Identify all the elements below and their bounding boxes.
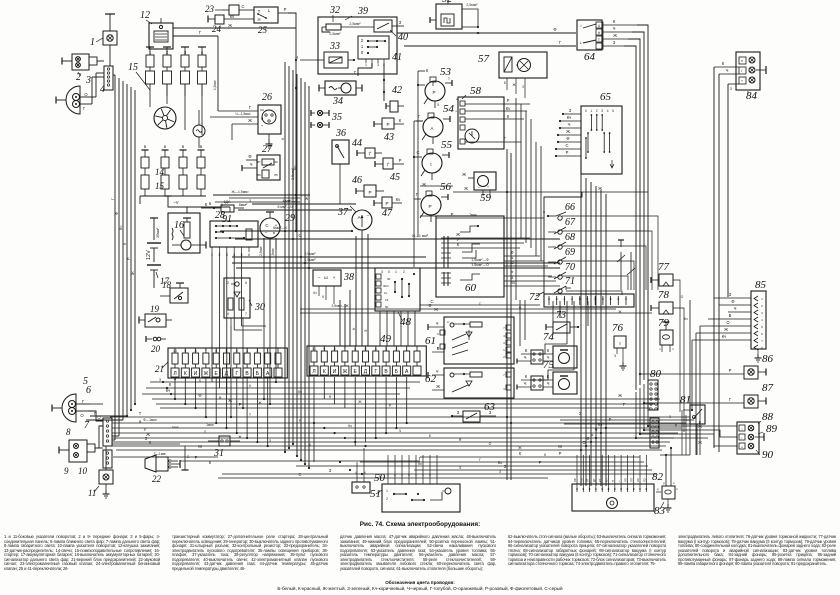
washer motor 59: [462, 172, 496, 204]
svg-text:24: 24: [212, 24, 222, 34]
svg-text:29: 29: [285, 213, 295, 224]
horn 22: [145, 455, 180, 484]
connector strip 80 lower: [650, 418, 659, 448]
headlamp 3: [56, 75, 105, 114]
svg-text:78: 78: [658, 289, 670, 301]
svg-text:1: 1: [365, 63, 367, 67]
fog lamp 86: [639, 353, 774, 379]
svg-text:7: 7: [205, 349, 207, 353]
turn relay 82: [572, 471, 664, 511]
gas valve 23: [205, 4, 246, 15]
svg-text:–: –: [318, 275, 321, 280]
svg-text:0: 0: [361, 50, 364, 55]
svg-text:≡: ≡: [619, 341, 622, 346]
svg-text:Т: Т: [249, 413, 251, 417]
svg-text:Г: Г: [504, 136, 507, 141]
svg-text:К: К: [169, 382, 172, 387]
wires into 85: [692, 290, 751, 455]
long horizontals lower band: [218, 451, 656, 478]
svg-text:20: 20: [151, 344, 161, 354]
svg-text:Д: Д: [364, 369, 368, 375]
gauge 55: [415, 139, 453, 180]
svg-text:L: L: [580, 41, 582, 45]
svg-text:1мм²: 1мм²: [206, 423, 215, 427]
svg-text:Ф: Ф: [553, 27, 556, 32]
svg-text:26: 26: [262, 92, 272, 103]
svg-text:Р: Р: [428, 204, 431, 209]
left lower wires K R: [112, 444, 420, 465]
svg-text:Ж: Ж: [358, 400, 362, 404]
svg-text:39: 39: [357, 6, 368, 17]
svg-text:КТ: КТ: [598, 478, 602, 482]
wires from 29 down: [264, 238, 276, 404]
transistor switch 26: [210, 92, 281, 148]
svg-text:Ч: Ч: [547, 381, 550, 386]
svg-text:Р: Р: [539, 460, 542, 465]
generator 29: [259, 212, 295, 262]
brake light switch 63: [451, 401, 496, 422]
svg-text:1: 1: [90, 37, 95, 48]
legend text column 5: [678, 535, 836, 567]
svg-text:86: 86: [762, 353, 774, 365]
svg-text:t: t: [430, 162, 432, 167]
svg-text:п: п: [741, 59, 743, 63]
svg-text:1,5мм²: 1,5мм²: [213, 80, 217, 90]
svg-text:Г: Г: [82, 399, 85, 404]
svg-text:71: 71: [565, 276, 575, 287]
svg-text:Ф: Ф: [114, 212, 119, 215]
svg-text:18: 18: [162, 280, 172, 290]
svg-text:22: 22: [152, 474, 162, 484]
svg-text:ПЗ: ПЗ: [642, 478, 646, 482]
extra wire letters texture: [139, 302, 623, 478]
long horizontals mid-page: [110, 411, 690, 450]
svg-text:7: 7: [761, 339, 763, 343]
svg-text:31: 31: [213, 448, 224, 459]
svg-text:С: С: [241, 4, 244, 9]
svg-text:6мм²—К: 6мм²—К: [273, 226, 288, 230]
svg-text:3: 3: [377, 63, 379, 67]
ignition coil 12: [140, 10, 296, 111]
svg-text:Ж: Ж: [698, 440, 702, 445]
svg-text:6: 6: [86, 385, 91, 396]
ignition switch 48: [375, 268, 420, 328]
switch block 25: [240, 7, 296, 208]
svg-text:Ж: Ж: [613, 33, 617, 38]
fuel sensor 79: [658, 317, 674, 352]
svg-text:30/1: 30/1: [383, 284, 389, 288]
vacuum sensor 77: [651, 261, 684, 412]
svg-text:21: 21: [155, 364, 164, 374]
connector 80: [648, 368, 662, 410]
svg-text:6: 6: [245, 281, 247, 285]
svg-text:Р: Р: [368, 190, 371, 195]
svg-text:+: +: [487, 184, 490, 189]
svg-text:69: 69: [565, 247, 575, 258]
svg-text:Г: Г: [479, 458, 481, 462]
svg-text:О: О: [80, 413, 84, 418]
svg-text:З: З: [613, 40, 616, 45]
svg-text:70: 70: [565, 262, 575, 273]
svg-text:10: 10: [173, 349, 177, 353]
svg-text:Ж—1,5мм²: Ж—1,5мм²: [231, 190, 249, 194]
fuel selector switch 64: [577, 20, 603, 63]
svg-text:58: 58: [470, 85, 482, 97]
svg-text:Кч: Кч: [684, 317, 688, 321]
wires to 84 and down: [714, 61, 739, 452]
wire lower plugs to bus: [140, 196, 206, 204]
svg-text:З: З: [459, 466, 461, 470]
svg-text:7: 7: [84, 420, 90, 431]
svg-text:+: +: [617, 480, 621, 482]
wires 64 outputs right then down: [603, 19, 648, 390]
gauge 54: [416, 103, 455, 144]
svg-text:С: С: [298, 233, 301, 238]
svg-text:Ж: Ж: [436, 384, 440, 389]
svg-text:Ж: Ж: [464, 186, 468, 191]
pressure sensor 46: [352, 175, 384, 197]
trailer socket 85: [751, 279, 767, 362]
portable lamp socket 50: [352, 471, 386, 493]
svg-text:2: 2: [403, 270, 405, 274]
svg-text:Ч: Ч: [614, 354, 616, 358]
battery 17: [146, 218, 170, 288]
wiper switch 65: [581, 91, 622, 174]
svg-text:2: 2: [761, 304, 763, 308]
wires lamps 5-11 to connector: [88, 404, 106, 462]
wires from 30 down: [231, 326, 243, 417]
svg-text:Ф: Ф: [428, 303, 431, 308]
wire bundle 48 down to 49: [380, 311, 415, 346]
svg-text:т: т: [741, 79, 743, 83]
horizontal feeders 2.5 1.5: [232, 252, 560, 268]
svg-text:ДТ: ДТ: [592, 478, 596, 482]
svg-text:76: 76: [612, 322, 624, 334]
svg-text:6: 6: [761, 332, 763, 336]
svg-text:Г: Г: [416, 192, 419, 197]
svg-text:4: 4: [236, 349, 238, 353]
svg-text:Т: Т: [139, 411, 142, 416]
indicator 70: [548, 262, 575, 279]
brake fluid sensor 76: [612, 322, 627, 370]
svg-text:Ж: Ж: [724, 327, 728, 332]
svg-text:Е: Е: [354, 369, 358, 375]
svg-text:Ф—1мм²: Ф—1мм²: [143, 418, 158, 422]
svg-text:Р: Р: [389, 404, 392, 408]
svg-text:Ж: Ж: [304, 196, 309, 200]
svg-text:З: З: [329, 468, 332, 473]
svg-text:15: 15: [155, 181, 165, 191]
svg-text:Ч: Ч: [436, 321, 439, 326]
svg-text:С: С: [298, 472, 301, 477]
vertical feeders left of gauges: [414, 71, 425, 267]
wire colour legend list: [0, 586, 840, 591]
svg-text:1: 1: [361, 44, 364, 49]
svg-text:86: 86: [257, 173, 261, 177]
svg-text:56: 56: [440, 181, 452, 193]
svg-text:З: З: [437, 103, 439, 107]
gauge 56: [414, 181, 452, 222]
svg-text:Кч: Кч: [313, 291, 317, 295]
svg-text:50: 50: [385, 305, 389, 309]
wiper relay 62: [425, 368, 514, 398]
svg-text:2,5мм²—Ж: 2,5мм²—Ж: [331, 304, 349, 308]
svg-text:Ж: Ж: [204, 371, 209, 377]
svg-text:3: 3: [503, 341, 505, 345]
wires bundle 690-700 down: [660, 74, 690, 455]
svg-text:2: 2: [256, 349, 258, 353]
svg-text:12V: 12V: [146, 250, 152, 260]
svg-text:2: 2: [386, 497, 388, 501]
wire starter top: [165, 196, 249, 213]
svg-text:4: 4: [503, 334, 505, 338]
svg-text:Ж: Ж: [558, 444, 562, 449]
svg-text:Г: Г: [199, 30, 202, 35]
switch 19: [139, 304, 172, 327]
svg-text:Ж: Ж: [618, 393, 622, 398]
svg-text:З: З: [457, 410, 460, 415]
svg-text:85: 85: [755, 279, 767, 291]
telltale enclosure box: [544, 192, 634, 294]
svg-text:1: 1: [149, 50, 152, 55]
svg-text:кз: кз: [260, 108, 264, 112]
svg-text:в: в: [182, 144, 185, 149]
svg-text:1: 1: [395, 270, 397, 274]
svg-text:7: 7: [245, 312, 247, 316]
svg-text:Кч: Кч: [118, 226, 123, 230]
svg-text:Кч: Кч: [598, 422, 603, 427]
svg-text:Р: Р: [399, 158, 402, 163]
svg-text:0: 0: [585, 109, 587, 113]
svg-text:Ж: Ж: [198, 444, 202, 449]
svg-text:Г: Г: [559, 40, 562, 45]
wires down into 82 pins: [577, 455, 646, 486]
svg-text:в: в: [273, 231, 275, 235]
gas pressure sensor 43: [374, 118, 404, 143]
svg-text:52: 52: [442, 0, 452, 5]
svg-text:ПП: ПП: [630, 478, 634, 482]
indicator 66: [543, 202, 575, 220]
svg-text:Р: Р: [239, 402, 242, 407]
svg-text:К: К: [426, 68, 429, 73]
svg-text:Г: Г: [83, 106, 86, 111]
svg-text:Г: Г: [623, 402, 626, 407]
front lamp 8-10: [59, 427, 102, 476]
svg-text:t°: t°: [369, 151, 372, 156]
svg-text:3: 3: [381, 270, 383, 274]
svg-text:п: п: [672, 347, 674, 351]
svg-text:К: К: [613, 19, 616, 24]
svg-text:К: К: [399, 118, 402, 123]
heater motor 75: [517, 359, 577, 394]
svg-text:З: З: [730, 87, 732, 91]
pressure sensor 47: [374, 197, 402, 219]
svg-text:1мм²: 1мм²: [172, 425, 179, 429]
rear lamp 84: [736, 52, 766, 102]
svg-text:С: С: [565, 143, 568, 148]
svg-text:81: 81: [680, 394, 691, 406]
horizontals above 61: [300, 299, 652, 313]
svg-text:1: 1: [761, 297, 763, 301]
wires under 21 block fan: [142, 376, 660, 408]
wires 60 right side: [451, 232, 560, 286]
gauge 53: [418, 66, 452, 108]
svg-text:К: К: [249, 384, 251, 388]
svg-text:48: 48: [400, 316, 412, 328]
svg-text:К: К: [544, 453, 546, 457]
wires drop from block 21 cells: [175, 377, 268, 446]
svg-text:К: К: [525, 348, 528, 353]
lower fuse block 49: [307, 333, 426, 376]
svg-text:1,5мм²: 1,5мм²: [304, 258, 316, 262]
svg-text:Ж: Ж: [130, 271, 135, 275]
svg-text:О: О: [489, 442, 492, 446]
svg-text:К: К: [280, 137, 285, 140]
svg-text:49: 49: [380, 333, 392, 345]
svg-text:0: 0: [388, 270, 390, 274]
svg-text:в: в: [209, 201, 212, 206]
svg-text:28: 28: [215, 210, 225, 221]
svg-text:55: 55: [441, 139, 453, 151]
svg-text:Б: Б: [429, 434, 432, 438]
column switch 60: [436, 216, 504, 297]
svg-text:З: З: [729, 292, 732, 297]
svg-text:О: О: [681, 295, 684, 299]
svg-text:З: З: [504, 464, 507, 469]
svg-text:З: З: [499, 470, 501, 474]
svg-text:1,5мм²—Ф: 1,5мм²—Ф: [471, 258, 489, 262]
svg-text:Л: Л: [312, 369, 315, 375]
svg-text:Ж: Ж: [228, 23, 232, 28]
svg-text:К: К: [205, 202, 208, 207]
svg-text:Ф: Ф: [586, 436, 589, 441]
relay 27: [242, 144, 280, 180]
side turn lamp 1: [90, 14, 117, 66]
svg-text:Ф: Ф: [198, 393, 201, 398]
svg-text:61: 61: [425, 335, 436, 347]
svg-text:15: 15: [128, 62, 138, 73]
wire 296 down join: [295, 208, 297, 232]
svg-text:Кv: Кv: [418, 462, 422, 466]
figure caption: [0, 521, 840, 528]
svg-text:Р: Р: [729, 368, 732, 373]
svg-text:т: т: [741, 427, 743, 431]
svg-text:3: 3: [761, 311, 763, 315]
horizontal feeder C-ZH: [235, 233, 560, 239]
svg-text:К: К: [437, 346, 440, 351]
svg-text:51: 51: [370, 488, 381, 500]
svg-text:2,5мм²: 2,5мм²: [259, 246, 263, 256]
svg-text:ЛБ: ЛБ: [573, 478, 577, 482]
svg-text:63: 63: [484, 401, 496, 413]
wire bundle center from box 39 down: [280, 62, 309, 468]
wires 72 pins down: [531, 301, 588, 380]
svg-text:ЛЗ: ЛЗ: [636, 478, 640, 482]
svg-text:Ф: Ф: [329, 395, 332, 399]
hazard switch 51: [370, 473, 460, 512]
side turn lamp 11: [88, 462, 113, 498]
svg-text:7мм²: 7мм²: [469, 213, 476, 217]
svg-text:Т—1мм²: Т—1мм²: [154, 452, 166, 456]
svg-text:п: п: [741, 445, 743, 449]
svg-text:З: З: [159, 378, 161, 382]
svg-text:Б: Б: [256, 371, 260, 377]
svg-text:Кч: Кч: [292, 166, 297, 170]
svg-text:2,5мм²: 2,5мм²: [349, 22, 361, 26]
svg-text:Р: Р: [451, 212, 454, 217]
svg-text:К: К: [322, 295, 324, 299]
svg-text:Ж: Ж: [566, 129, 570, 134]
svg-text:1,5мм²: 1,5мм²: [271, 248, 275, 258]
connector panel 4: [92, 66, 113, 104]
svg-text:А: А: [431, 126, 434, 131]
svg-text:6 мм²—Ч: 6 мм²—Ч: [277, 205, 293, 209]
svg-text:2: 2: [395, 347, 397, 351]
svg-text:К: К: [547, 348, 550, 353]
wires into 65 left pins: [555, 108, 581, 157]
svg-text:7: 7: [344, 347, 346, 351]
svg-text:3: 3: [184, 50, 187, 55]
svg-text:3: 3: [246, 349, 248, 353]
svg-text:5: 5: [612, 109, 614, 113]
svg-text:35: 35: [331, 112, 342, 123]
svg-text:З: З: [363, 329, 368, 332]
wire bundle 38-48 down to 49: [340, 230, 368, 346]
svg-text:р: р: [657, 487, 659, 491]
svg-text:2: 2: [503, 355, 505, 359]
svg-text:С: С: [265, 223, 268, 228]
svg-text:3: 3: [601, 109, 603, 113]
cab lamp unit 57: [478, 52, 547, 98]
legend text column 1: [4, 535, 160, 571]
svg-text:23: 23: [205, 4, 215, 14]
svg-text:1: 1: [591, 109, 593, 113]
svg-text:6мм²: 6мм²: [239, 203, 248, 207]
svg-text:Е: Е: [215, 371, 219, 377]
svg-text:К: К: [351, 327, 356, 330]
connector strip left lower: [103, 418, 112, 468]
distributor 13: [128, 62, 202, 135]
svg-text:Р: Р: [284, 7, 287, 12]
svg-text:Ж: Ж: [343, 369, 348, 375]
svg-text:Кv: Кv: [396, 197, 401, 202]
svg-text:9: 9: [184, 349, 186, 353]
svg-text:Б: Б: [504, 81, 506, 85]
light switch 28: [210, 210, 258, 257]
svg-text:1: 1: [406, 347, 408, 351]
svg-text:Р: Р: [195, 455, 198, 460]
svg-text:Ж—1 мм²: Ж—1 мм²: [412, 234, 429, 238]
indicator 71: [554, 276, 575, 293]
svg-text:К: К: [323, 369, 326, 375]
svg-text:10: 10: [312, 347, 316, 351]
svg-text:р: р: [663, 481, 665, 485]
park brake switch 73: [546, 310, 579, 333]
spark plugs 14 top row: [146, 50, 207, 96]
relay 40: [374, 20, 408, 43]
svg-text:1: 1: [386, 489, 388, 493]
svg-text:42: 42: [392, 85, 402, 96]
svg-text:79: 79: [658, 317, 670, 329]
svg-text:4: 4: [227, 312, 229, 316]
svg-text:г: г: [741, 436, 742, 440]
svg-text:Ф: Ф: [219, 396, 222, 400]
svg-text:5: 5: [761, 325, 763, 329]
horn wire up: [182, 446, 190, 470]
wires drop from block 49 cells: [314, 377, 407, 462]
svg-text:27: 27: [262, 144, 273, 155]
svg-text:11: 11: [88, 488, 96, 498]
